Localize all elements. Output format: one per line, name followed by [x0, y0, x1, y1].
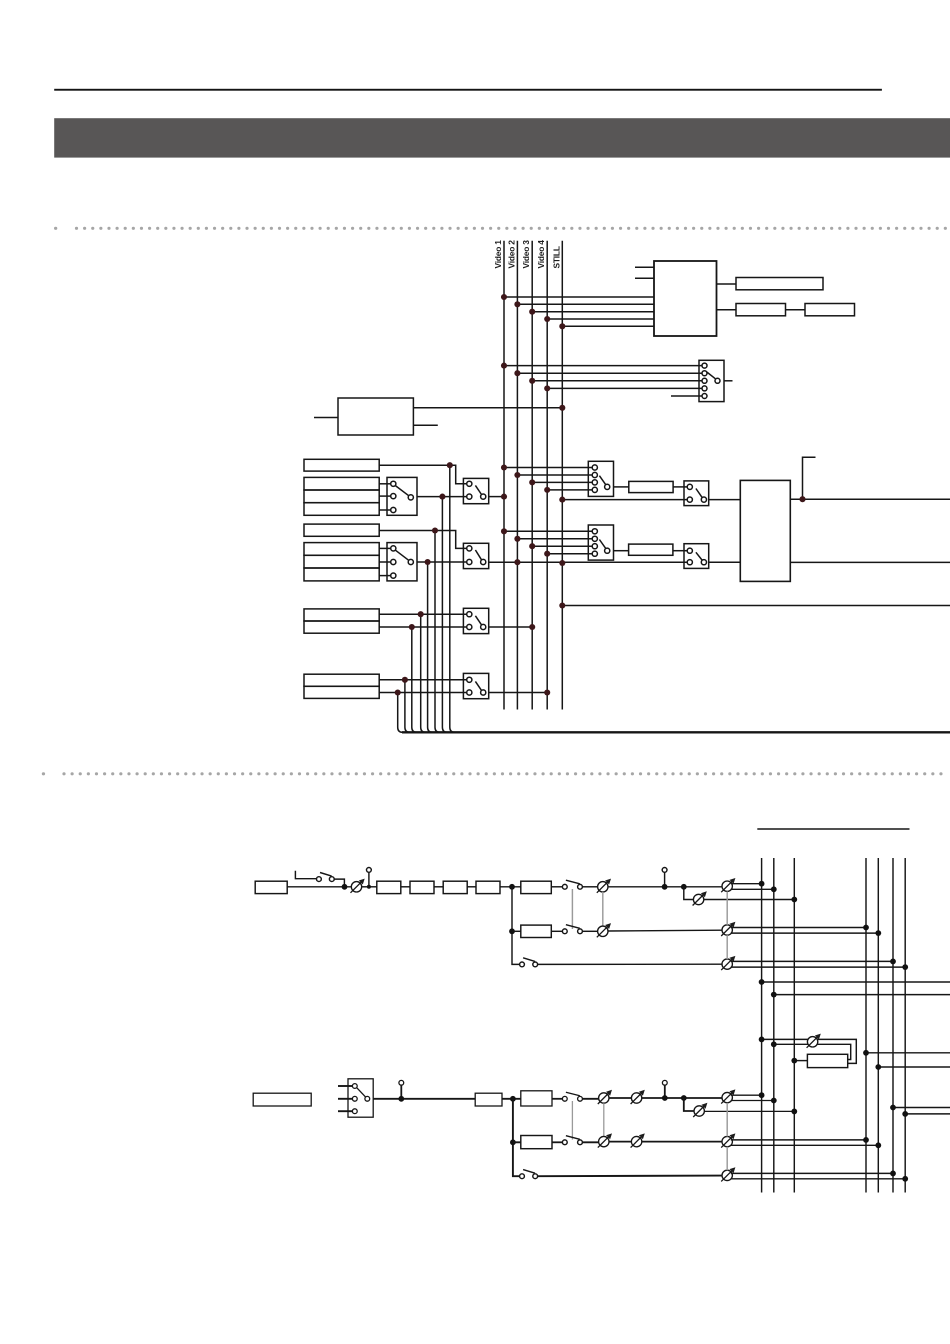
junction dot STILL/M1 [559, 497, 565, 503]
switch X4 A/B 2x2 [463, 673, 488, 698]
audio bus 7 [904, 858, 906, 1193]
junction dot bus5 out [875, 1064, 881, 1070]
junction dot bus2 out [771, 992, 777, 998]
pot P1 row-A trim [351, 879, 365, 893]
wire P3 to bus3 [704, 899, 795, 901]
junction dot bus3/echo [791, 1058, 797, 1064]
bus Video 3 [531, 241, 533, 710]
wire X4 output to Video4 [489, 692, 548, 694]
wire CH1b drop to program bus [442, 497, 447, 733]
wire F1 to M1 [673, 486, 687, 488]
junction dot bus6 out [890, 1105, 896, 1111]
junction dot row-A branch [681, 884, 687, 890]
junction dot CH1b [439, 494, 445, 500]
junction dot row-B takeoff [509, 928, 515, 934]
pot PD1 row-D level [598, 1090, 612, 1104]
audio bus 5 [877, 858, 879, 1193]
wire SWB to F2 [614, 550, 629, 552]
wire X2 output across Video2/STILL [489, 561, 690, 563]
junction dot bus7 out [902, 1111, 908, 1117]
gang line P2/P5 [602, 892, 604, 926]
terminal T1 insert [367, 868, 372, 889]
wire tap Video2 to monitor switch [517, 372, 702, 374]
wire SA1 to join [334, 879, 344, 887]
wire PF1 to bus7 [731, 1178, 905, 1180]
wire PD1 to PD2 [609, 1097, 632, 1099]
audio bus 6 [892, 858, 894, 1193]
wire P6 to bus5 [731, 932, 879, 934]
wire CH2b drop to program bus [428, 562, 433, 732]
wire SC1 to P7 [538, 963, 723, 965]
pot P6 row-B pan [721, 922, 735, 936]
wire tap Video3 to U1 [532, 311, 654, 313]
junction dot bus4 feed B [863, 925, 869, 931]
junction dot STILL/U1 [559, 323, 565, 329]
junction dot Video4/SW1 [544, 385, 550, 391]
wire SF1 to PF1 [538, 1175, 723, 1178]
wire CH3 bottom to X3 [379, 626, 467, 628]
wire SD2 to PD1 [582, 1098, 599, 1100]
junction dot Video4/SWA [544, 487, 550, 493]
chapter title bar [54, 118, 950, 157]
junction dot bus2 feed A [771, 886, 777, 892]
junction dot bus4 out [863, 1050, 869, 1056]
junction dot CH4a [402, 677, 408, 683]
block EQ3 [443, 881, 467, 893]
audio bus 1 [761, 858, 763, 1193]
wire S1 output to X1 [417, 496, 467, 498]
pot PE2 row-E balance [631, 1133, 645, 1147]
switch X1 A/B 2x2 [463, 478, 488, 503]
switch SD source select 3-to-1 [348, 1079, 373, 1117]
wire STILL tap to M1 [562, 499, 687, 501]
block F1 filter [629, 481, 673, 492]
svg-text:Video 3: Video 3 [521, 240, 531, 269]
wire RB1 to SB1 [551, 930, 562, 932]
junction dot bus6 feed F [890, 1171, 896, 1177]
wire tap Video4 to SWA [547, 489, 592, 491]
wire S2 output to X2 [417, 561, 467, 563]
gang line PD3/PE3/PF1 [726, 1103, 728, 1171]
wire tap Video4 to U1 [547, 318, 654, 320]
wire CH1 elbow to selector [450, 465, 467, 484]
wire SE1 to PE1 [582, 1141, 599, 1143]
wire bus6 out to edge [893, 1107, 950, 1109]
terminal TD insert [398, 1080, 404, 1101]
wire tap Video4 to SWB [547, 553, 592, 555]
wire CH4 top to X4 [379, 679, 467, 681]
junction dot bus3 feed A [791, 897, 797, 903]
wire tap Video3 to SWA [532, 481, 592, 483]
block RD0 line input label [253, 1093, 311, 1106]
switch M2 B-bus/STILL 2x2 [684, 544, 709, 569]
switch SB1 mute B [562, 925, 582, 934]
wire bus5 out to edge [878, 1066, 950, 1068]
wire bus4 out to edge [866, 1052, 950, 1054]
pot P3 aux send A [693, 891, 707, 905]
wire P5 to P6 [608, 929, 722, 932]
wire bus2 out to edge [774, 994, 950, 996]
wire bus1 to echo loop outer [762, 1039, 857, 1063]
wire P4 to bus2 [731, 888, 774, 890]
svg-text:Video 1: Video 1 [493, 240, 503, 269]
wire CH4 bottom to X4 [379, 692, 467, 694]
block CH2 label box [304, 524, 379, 536]
wire CH4a drop to program bus [405, 680, 410, 733]
wire CH1 drop to program bus [450, 465, 455, 732]
wire PE1 to PE2 [609, 1141, 632, 1143]
junction dot row-A split [509, 884, 515, 890]
pot PD3 row-D pan [721, 1089, 735, 1103]
junction dot Video3/SWA [529, 479, 535, 485]
wire CH2 source stubs [379, 548, 391, 575]
wire X1 output to Video1 [489, 496, 504, 498]
wire PE2 to PE3 [642, 1141, 723, 1143]
block ECHO delay [807, 1054, 847, 1067]
audio bus 4 [865, 858, 867, 1193]
wire stub to monitor switch input 5 [671, 395, 702, 397]
block EQ1 [377, 881, 401, 893]
block A output jack [736, 278, 823, 290]
block EQ2 [410, 881, 434, 893]
junction dot Video4/SWB [544, 551, 550, 557]
switch SD2 mute D [562, 1092, 582, 1101]
block V still-store [338, 398, 413, 435]
svg-text:STILL: STILL [551, 246, 561, 268]
svg-text:Video 2: Video 2 [506, 240, 516, 269]
block U1 output-processor [654, 261, 717, 336]
junction dot CH3a [418, 611, 424, 617]
block RD1 preamp [475, 1093, 502, 1106]
wire RE1 to SE1 [552, 1141, 563, 1143]
wire RD1 to RD2 [502, 1098, 521, 1100]
wire U1 to block B [717, 309, 737, 311]
wire tap Video2 to SWA [517, 474, 592, 476]
wire block V to STILL bus [413, 407, 562, 409]
wire CH4b drop to program bus [398, 693, 403, 733]
block C output jack 2 [805, 304, 855, 316]
junction dot Video1/U1 [501, 294, 507, 300]
wire P4 to bus1 [731, 883, 762, 885]
wire tap Video3 to monitor switch [532, 380, 702, 382]
wire tap Video1 to SWA [504, 467, 592, 469]
bus Video 1 [503, 241, 505, 710]
wire branch elbow to P3 [684, 887, 694, 900]
wire split drop A-B-C [512, 887, 520, 965]
terminal TD2 insert [662, 1080, 668, 1101]
gang line PD1/PE1 [603, 1103, 605, 1136]
junction dot row-E takeoff [510, 1139, 516, 1145]
gang line P4/P6/P7 [726, 891, 728, 959]
wire takeoff to RE1 [513, 1141, 521, 1143]
wire tap Video1 to monitor switch [504, 365, 702, 367]
junction dot Video3/SW1 [529, 378, 535, 384]
wire SW1 output [724, 380, 733, 382]
junction dot bus3 feed D [791, 1109, 797, 1115]
wire P7 to bus6 [731, 960, 893, 962]
junction dot CH1a [447, 462, 453, 468]
wire SB1 to P5 [582, 930, 598, 932]
wire SD output to RD1 [373, 1098, 475, 1100]
pot PE1 row-E level [598, 1133, 612, 1147]
wire CH2 label box output [379, 530, 435, 532]
bus Video 4 [546, 241, 548, 710]
wire CH2 drop to program bus [435, 531, 440, 733]
wire RD2 to SD2 [552, 1098, 563, 1100]
wire program bus trunk (thick) [402, 731, 950, 733]
block G mix engine [740, 480, 790, 581]
wire STILL direct out to edge [562, 605, 950, 607]
switch SA1 bypass [317, 873, 335, 882]
wire bus1 out to edge [762, 981, 950, 983]
wire tap Video2 to U1 [517, 303, 654, 305]
wire EQ1-EQ2 [401, 886, 410, 888]
wire U1 top stub 2 [635, 277, 654, 279]
switch SWB bus B select 4-to-1 [588, 525, 613, 560]
wire row-A bypass stub [295, 871, 316, 879]
wire CH1 source stubs [379, 484, 391, 510]
wire block B to block C [786, 309, 806, 311]
block RA1 mic input [255, 881, 287, 893]
junction dot X2/Video2 [514, 559, 520, 565]
pot P2 row-A level [597, 879, 611, 893]
wire tap STILL to U1 [562, 325, 654, 327]
pot P4 row-A pan [721, 878, 735, 892]
junction dot bus7 feed C [902, 964, 908, 970]
block F2 filter [629, 544, 673, 555]
block CH4 input pair [304, 674, 379, 698]
wire X3 output to Video3 [489, 626, 533, 628]
wire G output A riser [803, 457, 816, 499]
wire EQ3-EQ4 [467, 886, 476, 888]
block CH2 input group (3 sources) [304, 543, 379, 581]
wire EQ2-EQ3 [434, 886, 443, 888]
switch X3 A/B 2x2 [463, 608, 488, 633]
wire SA2 to P2 [582, 886, 598, 888]
switch SA2 mute [562, 880, 582, 889]
bus STILL [561, 241, 563, 710]
audio section top rule [757, 828, 909, 830]
switch SWA bus A select 4-to-1 [588, 461, 613, 496]
wire tap Video1 to SWB [504, 530, 592, 532]
junction dot Video1/SW1 [501, 363, 507, 369]
junction dot X3/Video3 [529, 624, 535, 630]
wire PE3 to bus5 [731, 1144, 879, 1146]
block RA2 fader amp [521, 881, 552, 893]
junction dot Video2/SW1 [514, 370, 520, 376]
switch S1 source select 3-to-1 [387, 477, 417, 515]
wire block V lower stub [413, 424, 437, 426]
junction dot CH4b [395, 689, 401, 695]
wire F2 to M2 [673, 550, 687, 552]
audio bus 2 [773, 858, 775, 1193]
wire M2 to G [709, 561, 741, 563]
block RE1 fader amp E [521, 1136, 552, 1149]
junction dot STILL/block V [559, 405, 565, 411]
block CH3 input pair [304, 609, 379, 633]
wire G output B to edge [790, 561, 950, 563]
wire PD3 to bus1 [731, 1094, 762, 1096]
pot P5 row-B level [597, 923, 611, 937]
junction dot Video4/U1 [544, 316, 550, 322]
wire SD input stubs [338, 1086, 352, 1111]
junction dot Video3/U1 [529, 309, 535, 315]
block RB1 fader amp B [521, 925, 552, 937]
block EQ4 [476, 881, 500, 893]
junction dot Video2/U1 [514, 301, 520, 307]
junction dot bus5 feed E [875, 1142, 881, 1148]
wire tap Video3 to SWB [532, 545, 592, 547]
audio bus 3 [793, 858, 795, 1193]
wire RA1 output [287, 886, 351, 888]
dotted separator upper [56, 227, 949, 230]
wire M1 to G [709, 499, 741, 501]
wire CH3a drop to program bus [421, 614, 426, 732]
switch SE1 mute E [562, 1136, 582, 1145]
wire RA2 to SA2 [551, 886, 562, 888]
junction dot bus2/echo [771, 1041, 777, 1047]
terminal T2 insert [662, 868, 668, 890]
junction dot STILL tap2 [559, 560, 565, 566]
wire U1 to block A [717, 283, 737, 285]
pot P7 row-C pan [721, 956, 735, 970]
svg-text:Video 4: Video 4 [536, 240, 546, 269]
block RD2 fader amp D [521, 1091, 552, 1106]
switch M1 A-bus/STILL 2x2 [684, 481, 709, 506]
junction dot bus4 feed E [863, 1137, 869, 1143]
junction dot CH2b [425, 559, 431, 565]
page top rule [54, 89, 882, 91]
junction dot row-D split [510, 1096, 516, 1102]
junction dot Video2/SWB [514, 536, 520, 542]
pot PE3 row-E pan [721, 1133, 735, 1147]
wire CH3 top to X3 [379, 613, 467, 615]
junction dot G output A [799, 496, 805, 502]
junction dot CH3b [409, 624, 415, 630]
wire split drop D-E-F (thick) [513, 1099, 520, 1176]
junction dot Video1/SWB [501, 528, 507, 534]
junction dot bus2 feed D [771, 1098, 777, 1104]
wire CH1 label box output [379, 464, 450, 466]
gang line SA1/SA2 [571, 889, 573, 929]
switch SC1 row-C on [520, 958, 538, 967]
wire CH2 elbow to selector [435, 531, 467, 549]
junction dot bus1/echo [759, 1037, 765, 1043]
wire G output A to edge [790, 498, 950, 500]
junction dot bus1 feed D [759, 1092, 765, 1098]
junction dot X1/Video1 [501, 494, 507, 500]
wire bus2 to echo loop inner [774, 1044, 851, 1059]
dotted separator lower [43, 772, 947, 775]
wire tap Video4 to monitor switch [547, 387, 702, 389]
switch SW1 monitor select 5-to-1 [699, 360, 724, 401]
wire P6 to bus4 [731, 927, 866, 929]
junction dot Video3/SWB [529, 543, 535, 549]
junction dot bus1 out [759, 979, 765, 985]
wire PD2 to PD3 [642, 1097, 723, 1099]
wire P7 to bus7 [731, 966, 905, 968]
block CH1 input group (3 sources) [304, 477, 379, 515]
wire P1 to EQ chain [362, 886, 377, 888]
wire SWA to F1 [614, 486, 629, 488]
junction dot STILL direct out [559, 602, 565, 608]
junction dot X4/Video4 [544, 689, 550, 695]
wire branch elbow to PD4 [684, 1098, 694, 1111]
junction dot bus5 feed B [875, 930, 881, 936]
gang line SD2/SE1 [571, 1101, 573, 1140]
pot PD2 row-D balance [631, 1090, 645, 1104]
junction dot bus1 feed A [759, 881, 765, 887]
junction dot bus6 feed C [890, 959, 896, 965]
wire block V input [314, 417, 338, 419]
wire PE3 to bus4 [731, 1139, 866, 1141]
wire bus3 to echo input [794, 1060, 807, 1062]
block CH1 label box [304, 459, 379, 471]
switch SF1 row-F on [520, 1170, 538, 1179]
wire bus7 out to edge [905, 1113, 950, 1115]
junction dot Video2/SWA [514, 472, 520, 478]
junction dot bus7 feed F [902, 1176, 908, 1182]
wire PD3 to bus2 [731, 1100, 774, 1102]
switch S2 source select 3-to-1 [387, 543, 417, 581]
wire tap Video2 to SWB [517, 538, 592, 540]
junction dot row-D branch [681, 1095, 687, 1101]
wire U1 top stub 1 [635, 266, 654, 268]
pot P8 echo send [807, 1034, 821, 1048]
wire CH3b drop to program bus [412, 627, 417, 732]
wire PD4 to bus3 [704, 1110, 794, 1112]
wire P2 to P4 [608, 886, 722, 888]
bus Video 2 [516, 241, 518, 710]
junction dot Video1/SWA [501, 464, 507, 470]
wire PF1 to bus6 [731, 1172, 893, 1174]
pot PD4 aux send D [693, 1103, 707, 1117]
block B encoder [736, 304, 786, 316]
wire takeoff to RB1 [512, 930, 521, 932]
junction dot row-A join [342, 884, 348, 890]
wire EQ4 to RA2 [500, 886, 521, 888]
wire tap Video1 to U1 [504, 296, 654, 298]
junction dot CH2a [432, 527, 438, 533]
switch X2 A/B 2x2 [463, 543, 488, 568]
pot PF1 row-F pan [721, 1167, 735, 1181]
